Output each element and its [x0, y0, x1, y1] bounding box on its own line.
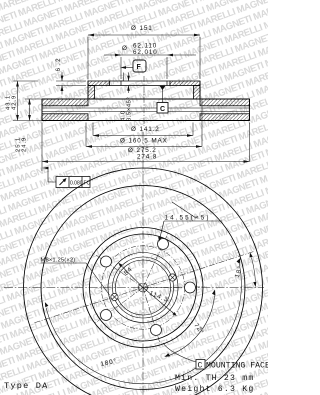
center circle: [139, 283, 148, 292]
ring bottom plate left: [42, 114, 88, 121]
ring top plate right: [200, 99, 250, 106]
arrow Ø275.2 left: [42, 160, 48, 163]
chamfer dim lines: [124, 73, 129, 94]
hat flange hatched right part: [170, 81, 200, 86]
dim 43.1 lines: [13, 81, 42, 121]
arrow 6.2 bottom: [61, 86, 64, 92]
M8 axis ray: [34, 252, 253, 323]
M8 holes: [111, 274, 176, 301]
svg-text:274.8: 274.8: [137, 154, 157, 161]
dim 180deg: [45, 258, 242, 384]
arrow 25.1 top: [28, 99, 31, 105]
svg-text:62.010: 62.010: [133, 49, 158, 56]
label 14.55(x5): [158, 202, 222, 242]
outer circle: [41, 186, 245, 390]
arrow Ø151 left: [88, 34, 94, 37]
bottom right text block: [175, 360, 270, 395]
dim 6.2 ext ticks: [56, 72, 86, 95]
datum F box: [121, 60, 147, 72]
ring top plate left: [42, 99, 88, 106]
svg-text:F: F: [137, 64, 142, 71]
arrow 43.1 bottom: [16, 115, 19, 121]
arrow 6.2 top: [61, 76, 64, 82]
hub circle: [116, 260, 171, 315]
bolt circle dashdot: [101, 246, 184, 329]
label M8x1.25(x2): [41, 258, 110, 296]
front view: [24, 168, 263, 395]
hat wall left: [88, 86, 95, 100]
vent gap lines: [42, 108, 250, 111]
svg-text:24.9: 24.9: [22, 137, 28, 152]
svg-text:Ø: Ø: [122, 45, 128, 52]
dim 25.1 lines: [25, 99, 42, 121]
arrow 43.1 top: [16, 81, 19, 87]
ring inner circle: [83, 228, 203, 348]
arrow Ø275.2 right: [244, 160, 250, 163]
bolt holes: [101, 239, 196, 336]
svg-text:Min. TH 23 mm: Min. TH 23 mm: [175, 373, 254, 383]
datum C box: [157, 86, 168, 113]
dim 84: [118, 263, 143, 288]
hat flange hatched left part: [88, 81, 110, 86]
svg-text:42.9: 42.9: [12, 95, 18, 110]
hat wall right: [194, 86, 201, 100]
mounting face leader: [163, 343, 196, 362]
arrow Ø62 right: [167, 54, 173, 57]
arrow 25.1 bottom: [28, 115, 31, 121]
svg-text:14.55(×5): 14.55(×5): [165, 215, 211, 222]
svg-text:C: C: [198, 362, 204, 371]
svg-text:Weight 6.3 Kg: Weight 6.3 Kg: [175, 384, 254, 394]
svg-text:M8×1.25(×2): M8×1.25(×2): [41, 258, 76, 264]
ring bottom plate right: [200, 114, 250, 121]
arrow chamfer bottom: [127, 86, 130, 91]
dim Ø151 lines: [88, 35, 200, 79]
svg-text:3.5×45°: 3.5×45°: [127, 97, 133, 121]
svg-text:Ø 151: Ø 151: [131, 25, 153, 32]
svg-text:Ø 141.2: Ø 141.2: [131, 126, 160, 133]
circle r35: [108, 253, 178, 323]
dim Ø62 lines: [104, 55, 196, 79]
arrow Ø141.2 left: [93, 134, 99, 137]
svg-text:Ø 160.5 MAX: Ø 160.5 MAX: [120, 138, 168, 145]
section axis centerline: [143, 76, 145, 126]
arrow Ø160.5 right: [196, 145, 202, 148]
ring face lines across: [42, 99, 250, 121]
hat flange bore gap lines: [110, 81, 171, 86]
dim Ø141.2 lines: [93, 123, 193, 136]
bolt hole rays: [34, 232, 253, 344]
centerline horizontal: [4, 287, 264, 289]
dim Ø160.5 lines: [86, 101, 202, 147]
svg-text:Type DA: Type DA: [4, 381, 49, 391]
svg-text:MOUNTING FACE: MOUNTING FACE: [206, 362, 268, 371]
svg-text:6.2: 6.2: [55, 56, 62, 71]
arrow Ø160.5 left: [86, 145, 92, 148]
section outer edges: [42, 81, 250, 121]
circle 84: [113, 257, 174, 318]
hat circle: [90, 234, 197, 341]
arrow Ø62 left: [115, 54, 121, 57]
section view: [42, 81, 250, 121]
dim 114.3: [143, 288, 177, 317]
arrow Ø141.2 right: [187, 134, 193, 137]
dim 18deg: [233, 253, 257, 288]
dimension texts top: [6, 25, 168, 161]
svg-text:C: C: [160, 106, 166, 113]
centerline vertical: [142, 132, 144, 395]
arrow chamfer top: [127, 76, 130, 81]
arrow Ø151 right: [194, 34, 200, 37]
runout tolerance frame: [43, 167, 91, 188]
dim Ø275.2 lines: [42, 123, 250, 172]
bore edges: [121, 81, 167, 86]
phantom outer circle: [24, 168, 263, 395]
dim 72deg: [165, 290, 216, 357]
